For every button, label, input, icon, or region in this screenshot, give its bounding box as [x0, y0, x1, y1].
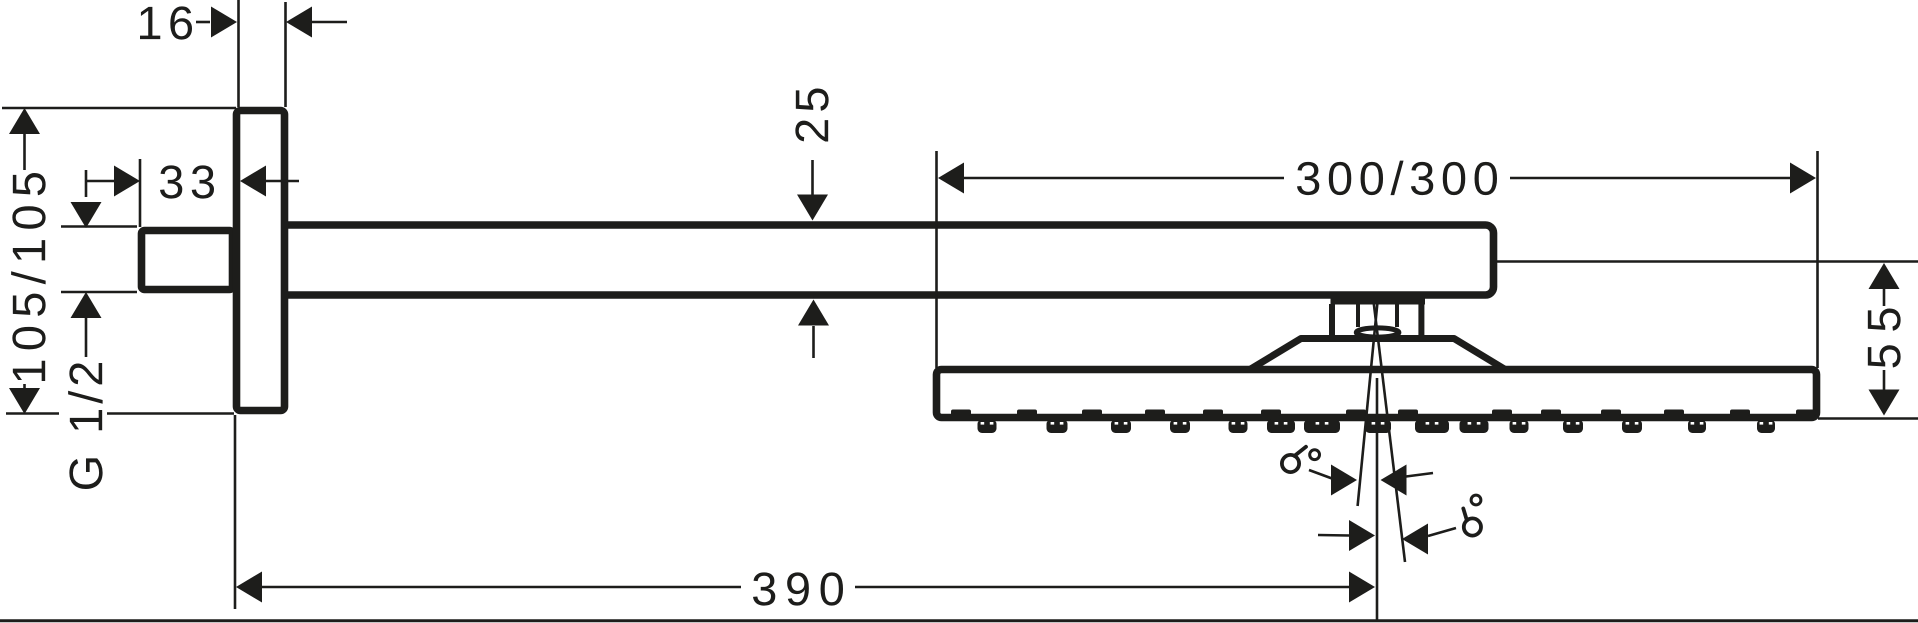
- dim 105 mid down arrow: [85, 170, 88, 197]
- node: tilt ray left: [1358, 302, 1378, 506]
- node: centre line of joint: [1376, 378, 1379, 621]
- label: 33: [160, 165, 214, 198]
- wire: connector neck left wall: [1329, 304, 1335, 341]
- node: reference line arm centre right: [1497, 260, 1918, 263]
- node: reference line head bottom right: [1818, 417, 1918, 420]
- wire: shower arm bar: [278, 225, 1494, 295]
- node: extension line 16 right: [284, 2, 287, 107]
- wire: connector flange and skirt: [1249, 339, 1506, 371]
- label: G 1/2: [68, 363, 103, 489]
- label: 300/300: [1297, 161, 1497, 196]
- node: tilt ray right: [1374, 302, 1405, 562]
- wire: connector neck right wall: [1418, 304, 1424, 341]
- label: 55: [1868, 309, 1901, 368]
- dim 6deg upper arrows: [1331, 465, 1357, 496]
- wire: supply stub pipe behind wall: [142, 231, 233, 290]
- dim 105/105 bottom arrow: [23, 384, 26, 389]
- dim 25 bottom arrow: [798, 300, 829, 326]
- nozzle row on spray face: [978, 420, 997, 434]
- wire: nipple left edge: [1356, 304, 1360, 327]
- node: extension line 300 left: [935, 151, 938, 368]
- dim 25 top arrow: [811, 160, 814, 198]
- wire: shower head plate: [937, 370, 1817, 418]
- node: extension line 390 left: [234, 415, 237, 609]
- label: 6deg upper: [1282, 455, 1299, 472]
- label: 390: [753, 572, 843, 605]
- dim 300/300 arrows: [938, 163, 964, 194]
- label: 16: [140, 6, 192, 39]
- dim 16 arrows: [196, 21, 210, 24]
- wire: nipple right edge: [1395, 304, 1399, 327]
- node: extension line plate bottom: [6, 412, 59, 415]
- far-row nozzle ticks: [951, 410, 971, 416]
- label: 25: [795, 89, 828, 142]
- label: 105/105: [11, 173, 46, 381]
- dim 33 arrows: [86, 180, 114, 183]
- node: top reference line: [2, 107, 236, 110]
- wire: wall plate escutcheon: [237, 111, 285, 411]
- wire: connector top plate: [1331, 295, 1426, 305]
- dim 6deg lower arrows: [1318, 534, 1349, 537]
- dim 55 bottom arrow: [1883, 370, 1886, 390]
- label: 6deg lower: [1464, 518, 1481, 535]
- dim 390 arrows: [236, 572, 262, 603]
- node: extension line 300 right: [1816, 151, 1819, 368]
- node: extension line 33: [139, 159, 142, 227]
- node: extension line arm bottom left: [61, 291, 137, 294]
- node: extension line 16 left: [237, 0, 240, 107]
- dim 105 mid up arrow: [71, 292, 102, 318]
- node: extension line arm top left: [61, 225, 137, 228]
- wire: nipple dish: [1356, 328, 1399, 337]
- dim 55 top arrow: [1869, 263, 1900, 289]
- dim 105/105 top arrow: [9, 108, 40, 134]
- node: bottom border line: [0, 619, 1918, 622]
